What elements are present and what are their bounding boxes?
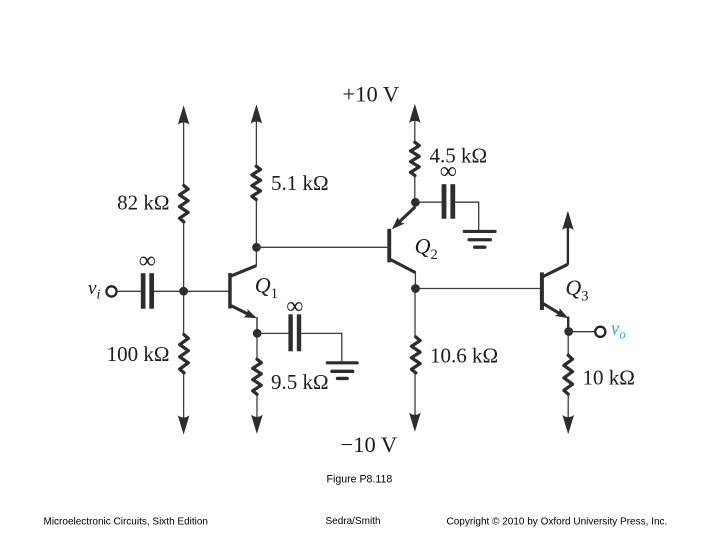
- wire Q1 emitter node to bypass capacitor: [257, 332, 288, 334]
- transistor Q1 emitter diagonal: [231, 305, 250, 314]
- capacitor C infinity input: right plate: [149, 273, 154, 309]
- svg-text:vi: vi: [88, 278, 100, 303]
- capacitor C infinity bypass Q1: right plate: [297, 314, 301, 351]
- terminal vo open circle: [595, 327, 605, 337]
- svg-text:10 kΩ: 10 kΩ: [583, 366, 635, 390]
- svg-text:∞: ∞: [139, 248, 156, 274]
- wire Q3 collector rail vertical: [567, 223, 569, 265]
- capacitor C infinity at Q2: left plate: [442, 184, 447, 219]
- transistor Q1 emitter arrowhead: [244, 309, 257, 318]
- svg-text:Q3: Q3: [565, 275, 588, 305]
- capacitor C infinity bypass Q1: left plate: [288, 314, 292, 351]
- ground symbol Q2 cap: bar 3: [473, 246, 487, 249]
- node junction dot Q1 emitter: [253, 329, 262, 338]
- svg-text:Q2: Q2: [415, 234, 438, 264]
- wire Q3 emitter rail lower segment: [567, 318, 569, 356]
- wire output node to vo terminal: [569, 331, 595, 333]
- transistor Q3 collector diagonal: [543, 264, 568, 276]
- transistor Q3 base bar: [540, 272, 544, 310]
- wire input capacitor to Q1 base: [154, 290, 228, 292]
- svg-text:+10 V: +10 V: [343, 82, 400, 107]
- node junction dot on left rail at input: [179, 287, 188, 296]
- wire Q2 emitter node to capacitor: [415, 201, 441, 203]
- ground symbol Q1 bypass: bar 1: [326, 361, 359, 364]
- svg-text:Microelectronic Circuits, Sixt: Microelectronic Circuits, Sixth Edition: [44, 517, 209, 528]
- resistor R 10k zigzag: [564, 355, 573, 394]
- svg-text:4.5 kΩ: 4.5 kΩ: [430, 144, 488, 168]
- rail C top supply arrow: [409, 104, 421, 123]
- svg-text:Figure P8.118: Figure P8.118: [327, 474, 393, 486]
- svg-text:vo: vo: [611, 320, 626, 342]
- wire Q3 emitter to node: [567, 317, 569, 330]
- svg-text:5.1 kΩ: 5.1 kΩ: [271, 171, 329, 195]
- svg-text:−10 V: −10 V: [341, 432, 398, 457]
- rail D top supply arrow: [562, 211, 574, 230]
- wire left rail vertical: [183, 118, 185, 187]
- resistor R 5.1k zigzag: [252, 166, 261, 199]
- capacitor C infinity at Q2: right plate: [450, 184, 455, 219]
- wire vi to input capacitor: [117, 290, 141, 292]
- svg-text:10.6 kΩ: 10.6 kΩ: [430, 344, 498, 368]
- transistor Q1 collector diagonal: [231, 266, 257, 277]
- rail A bottom supply arrow: [178, 415, 190, 434]
- svg-text:∞: ∞: [440, 159, 457, 185]
- wire Q2 collector node to Q3 base: [416, 288, 541, 290]
- node junction dot Q1 collector to rail: [252, 243, 261, 252]
- wire Q1 emitter to node: [256, 317, 258, 330]
- resistor R 82k zigzag: [180, 186, 189, 222]
- wire third rail lower segment: [414, 288, 416, 338]
- transistor Q2 emitter arrowhead (points to base bar): [392, 217, 405, 230]
- capacitor C infinity input: left plate: [141, 273, 146, 309]
- rail B bottom supply arrow: [251, 415, 263, 434]
- resistor R 4.5k zigzag: [411, 142, 420, 175]
- rail B top supply arrow: [251, 104, 263, 123]
- wire third rail vertical: [414, 116, 416, 143]
- wire second rail vertical: [255, 117, 257, 167]
- node junction dot Q2 collector row: [411, 284, 420, 293]
- wire Q1 collector node to Q2 base: [257, 246, 388, 248]
- svg-text:Copyright © 2010 by Oxford Uni: Copyright © 2010 by Oxford University Pr…: [447, 517, 668, 528]
- svg-text:9.5 kΩ: 9.5 kΩ: [271, 370, 329, 394]
- wire Q1 bypass capacitor to ground: [301, 333, 342, 361]
- wire second rail lower segment: [256, 318, 258, 360]
- ground symbol Q1 bypass: bar 3: [336, 377, 349, 380]
- ground symbol Q1 bypass: bar 2: [330, 370, 354, 373]
- svg-text:82 kΩ: 82 kΩ: [117, 191, 169, 215]
- transistor Q2 collector diagonal (bottom): [391, 260, 416, 273]
- transistor Q1 base bar: [228, 273, 232, 309]
- resistor R 9.5k zigzag: [253, 359, 262, 394]
- node junction dot Q2 emitter / 4.5k / cap: [411, 198, 420, 207]
- node junction dot Q3 emitter output: [564, 327, 573, 336]
- terminal vi open circle: [106, 286, 116, 296]
- transistor Q3 emitter arrowhead: [555, 308, 568, 318]
- ground symbol Q2 cap: bar 2: [468, 238, 493, 241]
- transistor Q2 emitter diagonal (PNP, top): [399, 207, 415, 222]
- ground symbol Q2 cap: bar 1: [463, 230, 497, 233]
- rail C bottom supply arrow: [409, 413, 421, 432]
- transistor Q3 emitter diagonal: [543, 304, 561, 315]
- svg-text:∞: ∞: [286, 294, 303, 320]
- resistor R 10.6k zigzag: [412, 337, 421, 373]
- svg-text:Q1: Q1: [255, 273, 278, 303]
- transistor Q2 base bar: [387, 229, 391, 263]
- svg-text:Sedra/Smith: Sedra/Smith: [326, 516, 381, 527]
- resistor R 100k zigzag: [180, 335, 189, 373]
- rail A top supply arrow: [178, 105, 190, 124]
- svg-text:100 kΩ: 100 kΩ: [107, 342, 170, 366]
- wire Q2 collector to node: [414, 272, 416, 286]
- wire Q2 capacitor to ground: [455, 202, 479, 230]
- rail D bottom supply arrow: [562, 415, 574, 434]
